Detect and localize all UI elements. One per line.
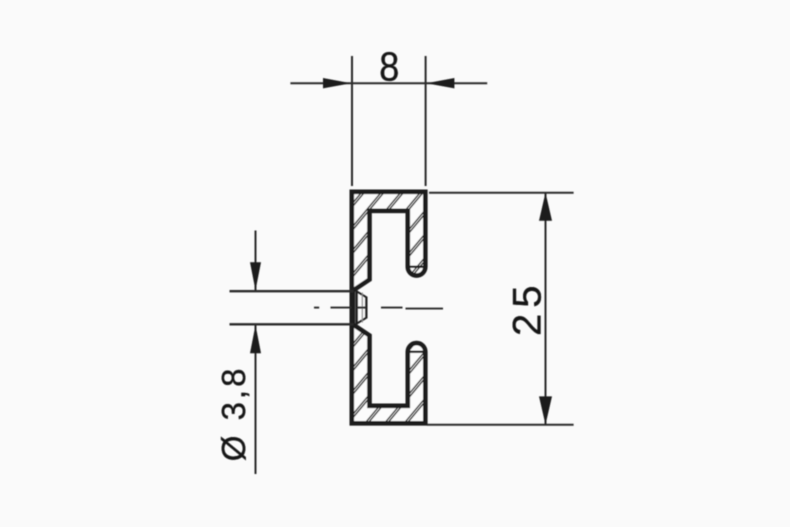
svg-text:25: 25: [505, 279, 549, 336]
svg-text:8: 8: [379, 45, 399, 91]
svg-text:Ø 3,8: Ø 3,8: [215, 366, 252, 462]
